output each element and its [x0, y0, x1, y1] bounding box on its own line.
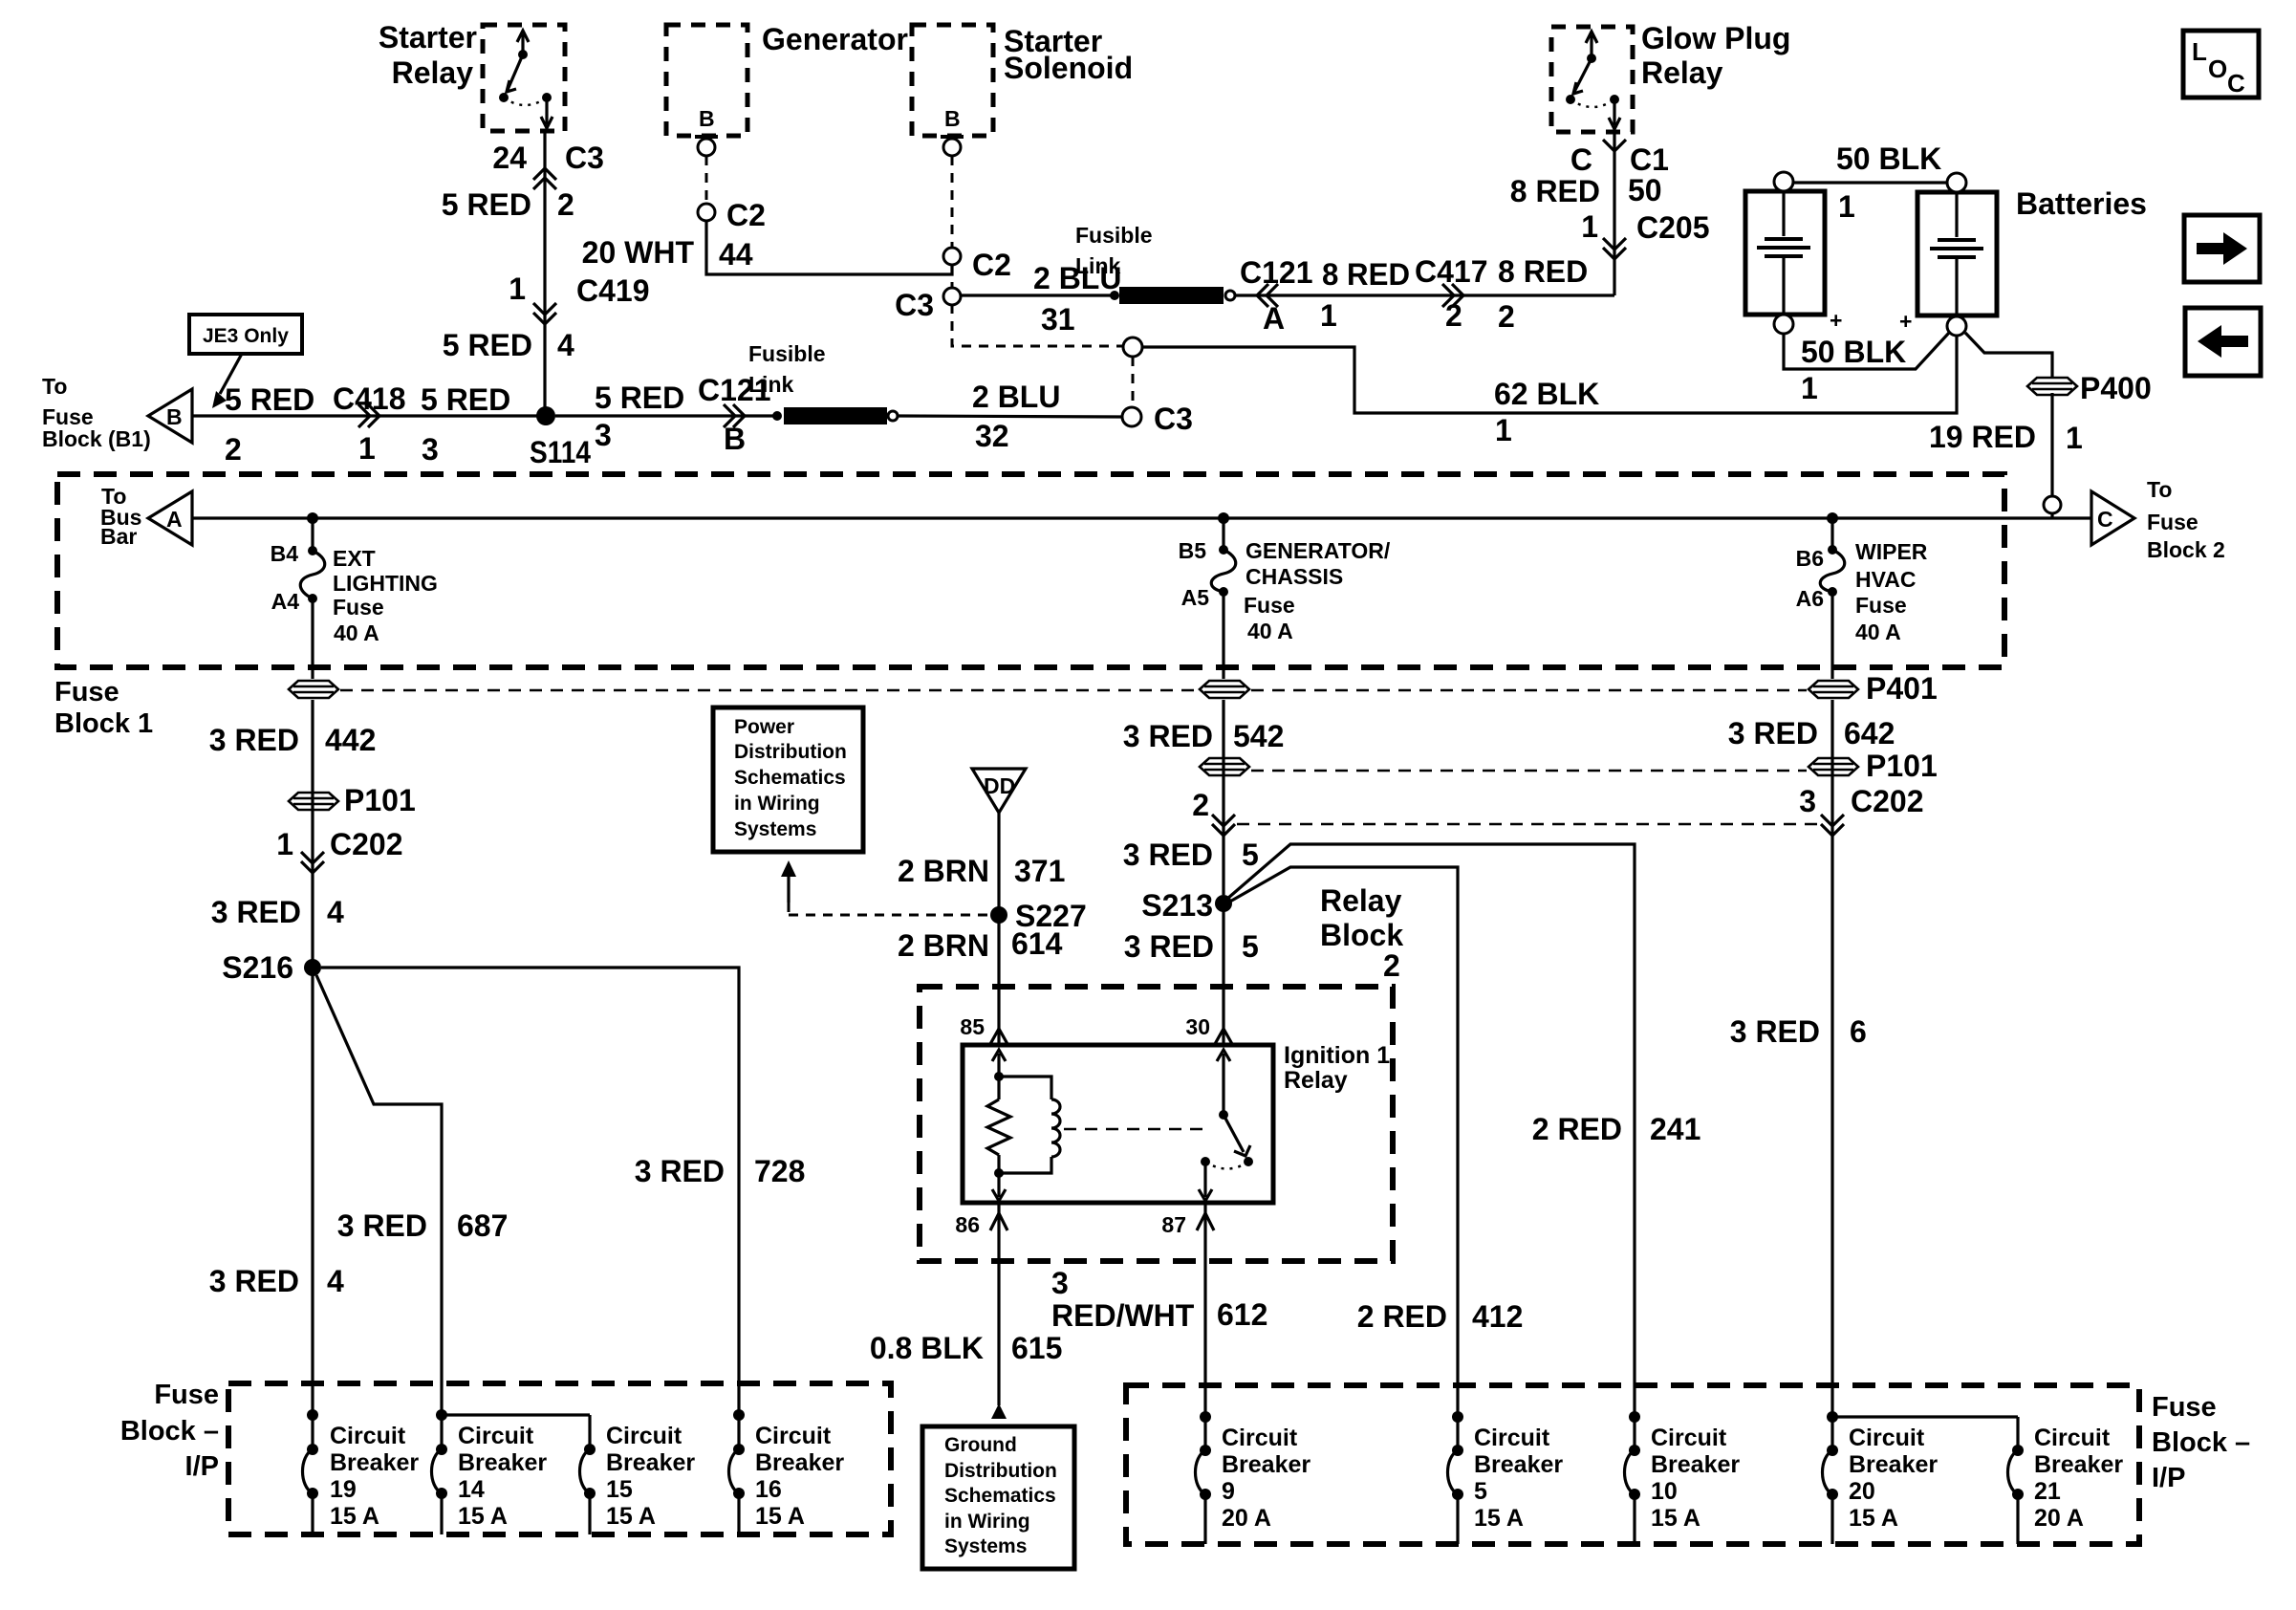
svg-text:B: B [166, 404, 183, 429]
wire label 8 RED 2 (right of C417) [1498, 254, 1588, 334]
svg-text:C202: C202 [1851, 784, 1924, 818]
svg-text:2 BLU: 2 BLU [972, 380, 1060, 414]
wire label 3 RED 4 [211, 895, 344, 929]
svg-text:Breaker: Breaker [458, 1449, 547, 1476]
wire S213 to breaker 10 [1227, 844, 1635, 1417]
svg-text:642: 642 [1844, 716, 1895, 751]
svg-text:15 A: 15 A [1474, 1505, 1524, 1532]
svg-text:542: 542 [1233, 719, 1284, 753]
svg-text:15 A: 15 A [606, 1503, 656, 1530]
svg-text:Circuit: Circuit [330, 1423, 406, 1449]
connector C417 chevrons [1442, 284, 1463, 307]
svg-text:Ground: Ground [944, 1434, 1017, 1456]
relay coil branch arrow up [992, 1050, 1006, 1077]
wire label 2 BLU 32 [972, 380, 1060, 453]
wire 2 BLU 31 / 8 RED run to glow plug relay [961, 132, 1614, 295]
svg-text:Block (B1): Block (B1) [42, 426, 151, 451]
connector circle on dashed lead (62 BLK) [1123, 337, 1142, 357]
connector P400 grommet [2027, 378, 2077, 395]
splice S216 [222, 950, 321, 985]
JE3 arrow [212, 354, 242, 408]
svg-text:615: 615 [1011, 1331, 1062, 1365]
svg-text:19: 19 [330, 1476, 357, 1503]
svg-text:2 BRN: 2 BRN [898, 928, 989, 963]
svg-text:Relay: Relay [1320, 883, 1402, 918]
svg-text:Breaker: Breaker [755, 1449, 844, 1476]
svg-text:S114: S114 [530, 435, 591, 469]
svg-text:3 RED: 3 RED [1124, 929, 1214, 964]
relay switch pin30 arrow [1217, 1050, 1230, 1115]
svg-text:20 WHT: 20 WHT [582, 235, 695, 270]
svg-text:4: 4 [557, 328, 574, 362]
connector C2 circle (starter solenoid) [943, 248, 1011, 282]
svg-text:Breaker: Breaker [2034, 1451, 2123, 1478]
svg-text:Link: Link [748, 372, 793, 397]
svg-text:1: 1 [1801, 371, 1818, 405]
generator pin B [695, 106, 718, 156]
svg-text:Breaker: Breaker [330, 1449, 419, 1476]
pin label 1 / C202 (left) [276, 827, 402, 861]
svg-text:1: 1 [509, 272, 526, 306]
thin dashed line P101 row [1251, 770, 1807, 772]
WIPER HVAC fuse label [1855, 539, 1928, 644]
svg-text:S216: S216 [222, 950, 293, 985]
wire label 19 RED 1 [1929, 420, 2083, 455]
relay internal node bottom [994, 1168, 1004, 1178]
junction dot GENERATOR/CHASSIS fuse [1218, 512, 1229, 524]
Fuse Block I/P left label [120, 1380, 219, 1482]
svg-text:0.8 BLK: 0.8 BLK [870, 1331, 984, 1365]
connector C205 chevrons [1603, 238, 1626, 259]
svg-text:Breaker: Breaker [1474, 1451, 1563, 1478]
svg-text:Power: Power [734, 716, 794, 738]
wire label 3 RED 542 [1123, 719, 1285, 753]
connector C202 chevrons (left) [301, 852, 324, 873]
svg-text:JE3 Only: JE3 Only [203, 325, 289, 347]
wire from battery to P400 [1965, 333, 2052, 378]
svg-text:20: 20 [1849, 1478, 1875, 1505]
svg-text:DD: DD [984, 773, 1015, 798]
svg-text:P101: P101 [344, 783, 416, 817]
svg-text:in Wiring: in Wiring [944, 1511, 1030, 1533]
svg-text:C2: C2 [726, 198, 766, 232]
svg-text:To: To [2147, 477, 2172, 502]
starter solenoid label [1004, 24, 1133, 85]
wire S213 down to relay pin 30 [1222, 903, 1224, 1045]
svg-text:2 BRN: 2 BRN [898, 854, 989, 888]
svg-text:612: 612 [1217, 1297, 1267, 1332]
circuit breaker 14 [432, 1409, 448, 1534]
connector C121 chevrons (A side) [1257, 284, 1278, 307]
svg-text:To: To [42, 374, 67, 399]
wire 20 WHT 44 [706, 221, 952, 274]
svg-text:50: 50 [1628, 173, 1662, 207]
svg-text:B: B [944, 106, 961, 131]
svg-text:15 A: 15 A [755, 1503, 805, 1530]
relay switch stationary contact [1201, 1157, 1248, 1169]
svg-text:3 RED: 3 RED [1123, 838, 1213, 872]
circuit breaker 15 label [606, 1423, 695, 1530]
GENERATOR/CHASSIS fuse [1211, 518, 1236, 679]
svg-text:5: 5 [1242, 838, 1259, 872]
wire 5 RED row to S114 [192, 414, 537, 417]
splice S114 [530, 406, 591, 469]
svg-text:Fuse: Fuse [1855, 593, 1907, 618]
svg-text:5: 5 [1474, 1478, 1487, 1505]
circuit breaker 16 label [755, 1423, 844, 1530]
svg-text:Starter: Starter [379, 20, 477, 54]
svg-text:Ignition 1: Ignition 1 [1284, 1042, 1390, 1069]
glow plug relay switch contacts [1566, 32, 1620, 129]
svg-text:20 A: 20 A [1222, 1505, 1271, 1532]
svg-text:5 RED: 5 RED [443, 328, 532, 362]
circuit breaker 5 label [1474, 1425, 1563, 1532]
svg-text:A6: A6 [1796, 586, 1824, 611]
svg-text:15 A: 15 A [1849, 1505, 1898, 1532]
pin label C / C1 [1570, 142, 1669, 177]
connector P101 grommet (right) [1809, 749, 1938, 783]
svg-text:Block: Block [1320, 918, 1403, 952]
Ignition 1 Relay label [1284, 1042, 1390, 1094]
svg-text:C2: C2 [972, 248, 1011, 282]
svg-text:40 A: 40 A [334, 620, 379, 645]
svg-text:4: 4 [327, 1264, 344, 1298]
svg-text:2: 2 [1445, 298, 1462, 333]
connector C121 labels A 1 [1240, 255, 1337, 336]
wire label 3 RED 642 [1728, 716, 1895, 751]
relay internal node top [994, 1072, 1004, 1081]
svg-text:442: 442 [325, 723, 376, 757]
svg-text:4: 4 [327, 895, 344, 929]
wire 50 BLK (bottom) [1784, 333, 1949, 369]
svg-text:9: 9 [1222, 1478, 1235, 1505]
wire label 2 RED 412 [1357, 1299, 1524, 1334]
svg-text:2 RED: 2 RED [1357, 1299, 1447, 1334]
svg-text:1: 1 [1838, 189, 1855, 224]
generator pigtail dashed lead [705, 156, 708, 204]
plus signs [1830, 308, 1912, 334]
svg-text:3 RED: 3 RED [337, 1208, 427, 1243]
svg-text:CHASSIS: CHASSIS [1245, 564, 1343, 589]
wire label 50 BLK 1 (bottom) [1801, 335, 1906, 405]
relay pin 86 chevron + label [955, 1212, 1007, 1237]
fusible link F1 (top) [1110, 287, 1235, 304]
connector P101 grommet (middle) [1200, 758, 1249, 775]
svg-text:C418: C418 [333, 381, 406, 416]
wire label 5 RED 2 [225, 382, 314, 467]
starter solenoid pin B [941, 106, 964, 156]
connector C417 labels [1415, 254, 1488, 333]
wire label 3 RED 5 (below S213) [1124, 929, 1259, 964]
wire label 5 RED 3 (right of S114) [595, 381, 684, 452]
svg-text:Block –: Block – [2152, 1427, 2250, 1458]
Relay Block 2 label [1320, 883, 1403, 983]
circuit breaker 21 [2008, 1417, 2025, 1544]
svg-text:C121: C121 [1240, 255, 1313, 290]
svg-text:Fuse: Fuse [333, 595, 384, 620]
svg-text:3: 3 [1799, 784, 1816, 818]
wire label 3 RED 442 [209, 723, 377, 757]
svg-text:31: 31 [1041, 302, 1075, 337]
svg-text:241: 241 [1650, 1112, 1700, 1146]
fusible link F2 (lower) [772, 407, 898, 424]
Ground Distribution reference box [922, 1426, 1074, 1569]
svg-text:Block 2: Block 2 [2147, 537, 2225, 562]
circuit breaker 19 label [330, 1423, 419, 1530]
wire S213 to breaker 5 [1228, 867, 1458, 1417]
svg-text:1: 1 [276, 827, 293, 861]
svg-text:1: 1 [358, 431, 376, 466]
circuit breaker 20 label [1849, 1425, 1938, 1532]
svg-text:Circuit: Circuit [1651, 1425, 1727, 1451]
svg-text:3: 3 [422, 432, 439, 467]
battery B2 [1917, 173, 1997, 336]
pin label 3 / C202 (right) [1799, 784, 1923, 818]
svg-text:Systems: Systems [734, 818, 816, 840]
wire pin87 to breaker 9 [1203, 1203, 1206, 1417]
svg-text:A: A [1263, 301, 1285, 336]
svg-text:Distribution: Distribution [734, 741, 847, 763]
svg-text:Solenoid: Solenoid [1004, 51, 1133, 85]
svg-text:S213: S213 [1141, 888, 1213, 923]
svg-text:3 RED: 3 RED [635, 1154, 725, 1188]
svg-text:Breaker: Breaker [1849, 1451, 1938, 1478]
wire label 2 BLU 31 [1033, 261, 1121, 337]
relay coil-switch dashed link [1064, 1128, 1206, 1131]
circuit breaker 15 [580, 1415, 596, 1534]
circuit breaker 16 [729, 1409, 746, 1534]
svg-text:C419: C419 [576, 273, 650, 308]
starter solenoid pigtail dashed lead [951, 156, 954, 288]
relay K1 switch contacts [499, 31, 552, 128]
svg-text:B: B [699, 106, 715, 131]
relay switch pivot [1219, 1110, 1228, 1120]
svg-text:8 RED: 8 RED [1322, 257, 1410, 292]
wire label 5 RED 4 [443, 328, 574, 362]
relay pin 85 chevron + label [960, 1014, 1007, 1044]
relay switch moving contact [1224, 1115, 1253, 1166]
svg-text:15 A: 15 A [330, 1503, 379, 1530]
wire 2 BLU 32 [898, 416, 1122, 417]
off-page triangle C [2091, 491, 2134, 545]
svg-text:L: L [2192, 37, 2207, 66]
svg-text:371: 371 [1014, 854, 1065, 888]
svg-text:Fuse: Fuse [154, 1380, 219, 1410]
wire S216 to breaker 16 [321, 968, 739, 1415]
svg-text:Circuit: Circuit [606, 1423, 682, 1449]
JE3 Only callout box [189, 315, 302, 354]
GENERATOR/CHASSIS fuse label [1244, 538, 1391, 643]
svg-text:Relay: Relay [392, 55, 474, 90]
svg-text:Distribution: Distribution [944, 1460, 1057, 1482]
svg-text:728: 728 [754, 1154, 805, 1188]
circle terminal on bus (19 RED) [2044, 496, 2061, 513]
connector C419 chevrons [533, 303, 556, 324]
svg-text:19 RED: 19 RED [1929, 420, 2036, 454]
svg-text:Circuit: Circuit [1849, 1425, 1925, 1451]
wire label 3 RED 6 [1730, 1014, 1867, 1049]
To Fuse Block 2 label [2147, 477, 2225, 562]
Ignition 1 Relay box [963, 1045, 1273, 1203]
svg-text:P400: P400 [2080, 371, 2152, 405]
svg-text:2: 2 [1192, 788, 1209, 822]
right-arrow box [2184, 215, 2260, 282]
relay pin87 exit arrow [1199, 1162, 1212, 1201]
right column wire 642 [1830, 700, 1833, 1417]
svg-text:O: O [2208, 54, 2227, 83]
svg-text:Circuit: Circuit [755, 1423, 832, 1449]
svg-text:Schematics: Schematics [944, 1485, 1056, 1507]
svg-text:P101: P101 [1866, 749, 1938, 783]
connector C chevron (glow plug relay) [1603, 140, 1626, 151]
To Fuse Block (B1) label [42, 374, 151, 451]
svg-text:40 A: 40 A [1247, 619, 1293, 643]
svg-text:86: 86 [955, 1212, 980, 1237]
dashed pigtail of starter solenoid to C3 circles [952, 304, 1133, 408]
connector C3 chevrons (starter relay) [533, 168, 556, 189]
bus bar wire [192, 516, 2091, 519]
svg-text:LIGHTING: LIGHTING [333, 571, 438, 596]
connector C202 chevrons (right) [1821, 815, 1844, 836]
svg-text:412: 412 [1472, 1299, 1523, 1334]
circuit breaker 5 [1448, 1411, 1464, 1544]
circuit breaker 21 label [2034, 1425, 2123, 1532]
dashed L link to S227 [789, 903, 987, 915]
svg-text:1: 1 [1581, 209, 1598, 244]
wire label 5 RED 2 [442, 187, 574, 222]
ground reference triangle DD [972, 769, 1026, 813]
svg-text:62 BLK: 62 BLK [1494, 377, 1599, 411]
svg-text:Systems: Systems [944, 1535, 1027, 1557]
svg-text:in Wiring: in Wiring [734, 793, 820, 815]
svg-text:C205: C205 [1636, 210, 1710, 245]
EXT fuse pin labels B4 A4 [271, 541, 300, 614]
svg-text:Circuit: Circuit [1474, 1425, 1550, 1451]
svg-text:Relay: Relay [1641, 55, 1723, 90]
svg-text:Breaker: Breaker [1222, 1451, 1310, 1478]
connector C2 circle (generator) [698, 198, 766, 232]
svg-text:16: 16 [755, 1476, 782, 1503]
svg-text:50 BLK: 50 BLK [1801, 335, 1906, 369]
circuit breaker 9 label [1222, 1425, 1310, 1532]
wire S216 down to breaker 19 [311, 968, 314, 1415]
svg-text:3 RED: 3 RED [1123, 719, 1213, 753]
svg-text:A: A [166, 507, 183, 532]
svg-text:+: + [1899, 309, 1912, 334]
wire pin86 to ground box [997, 1203, 1000, 1405]
Relay Block 2 dashed box [920, 987, 1393, 1261]
svg-text:1: 1 [1495, 413, 1512, 447]
EXT LIGHTING fuse label [333, 546, 438, 645]
svg-text:Fuse: Fuse [54, 677, 119, 707]
glow plug relay dashed box [1551, 27, 1633, 132]
svg-text:30: 30 [1185, 1014, 1210, 1039]
wire label 20 WHT 44 [582, 235, 753, 272]
splice S227 [990, 899, 1087, 933]
jumper breaker 14 to 15 [442, 1413, 590, 1416]
svg-text:B: B [724, 422, 746, 456]
svg-text:3 RED: 3 RED [1728, 716, 1818, 751]
svg-text:15: 15 [606, 1476, 633, 1503]
svg-text:8 RED: 8 RED [1510, 174, 1600, 208]
svg-text:Circuit: Circuit [1222, 1425, 1298, 1451]
junction dot WIPER HVAC fuse [1827, 512, 1838, 524]
Fuse Block I/P right label [2152, 1392, 2250, 1493]
splice S213 [1141, 888, 1232, 923]
svg-text:RED/WHT: RED/WHT [1051, 1298, 1195, 1333]
svg-text:P401: P401 [1866, 671, 1938, 706]
svg-text:Generator: Generator [762, 22, 908, 56]
thin dashed line P401 row [340, 689, 1807, 692]
svg-text:A5: A5 [1181, 585, 1210, 610]
svg-text:Schematics: Schematics [734, 767, 846, 789]
Power Distribution reference box [713, 707, 863, 852]
svg-text:50 BLK: 50 BLK [1836, 141, 1941, 176]
wire label 2 BRN 371 [898, 854, 1065, 888]
svg-text:3 RED: 3 RED [211, 895, 301, 929]
circuit breaker 10 [1625, 1411, 1641, 1544]
thin dashed line C202 row [1237, 823, 1820, 826]
LOC box [2183, 31, 2259, 98]
fusible link label (lower) [748, 341, 826, 397]
ground box arrow terminal [991, 1403, 1007, 1419]
junction dot EXT fuse [307, 512, 318, 524]
connector C121 labels B [698, 373, 771, 456]
wire label 0.8 BLK 615 [870, 1331, 1063, 1365]
svg-text:3: 3 [1051, 1266, 1069, 1300]
svg-text:WIPER: WIPER [1855, 539, 1928, 564]
svg-text:14: 14 [458, 1476, 485, 1503]
wire label 2 RED 241 [1532, 1112, 1701, 1146]
middle column wire 542 [1222, 700, 1224, 895]
WIPER HVAC fuse [1820, 518, 1845, 679]
Fuse Block 1 dashed box [57, 474, 2004, 667]
svg-text:5 RED: 5 RED [442, 187, 531, 222]
svg-text:Circuit: Circuit [458, 1423, 534, 1449]
svg-text:C: C [2227, 69, 2245, 98]
connector C418 labels [333, 381, 406, 466]
wire label 5 RED 3 [421, 382, 510, 467]
wire S114 to fusible link [555, 414, 775, 417]
svg-text:21: 21 [2034, 1478, 2061, 1505]
svg-text:C: C [2097, 507, 2113, 532]
relay K1 Starter Relay dashed box [483, 25, 565, 131]
circuit breaker 10 label [1651, 1425, 1740, 1532]
off-page triangle B [148, 389, 192, 443]
off-page triangle A [148, 491, 192, 545]
svg-text:20 A: 20 A [2034, 1505, 2084, 1532]
svg-text:Bar: Bar [100, 524, 137, 549]
connector P101 grommet (left) [289, 783, 416, 817]
WIPER fuse pin labels B6 A6 [1796, 546, 1824, 611]
svg-text:Block –: Block – [120, 1416, 219, 1447]
connector C3 circle (2 BLU 32) [1122, 402, 1193, 436]
svg-text:2: 2 [1498, 299, 1515, 334]
svg-text:44: 44 [719, 237, 753, 272]
connector C121 chevrons (B side) [724, 404, 745, 427]
svg-text:1: 1 [2066, 421, 2083, 455]
svg-text:5 RED: 5 RED [225, 382, 314, 417]
GEN fuse pin labels B5 A5 [1179, 538, 1210, 610]
svg-text:85: 85 [960, 1014, 985, 1039]
svg-text:5: 5 [1242, 929, 1259, 964]
connector C202 chevrons (middle) [1212, 815, 1235, 836]
EXT LIGHTING fuse [300, 518, 325, 679]
svg-text:1: 1 [1320, 298, 1337, 333]
svg-text:C3: C3 [895, 288, 934, 322]
grommet row P401: left grommet [289, 681, 338, 698]
wire 62 BLK 1 [1142, 336, 1957, 413]
